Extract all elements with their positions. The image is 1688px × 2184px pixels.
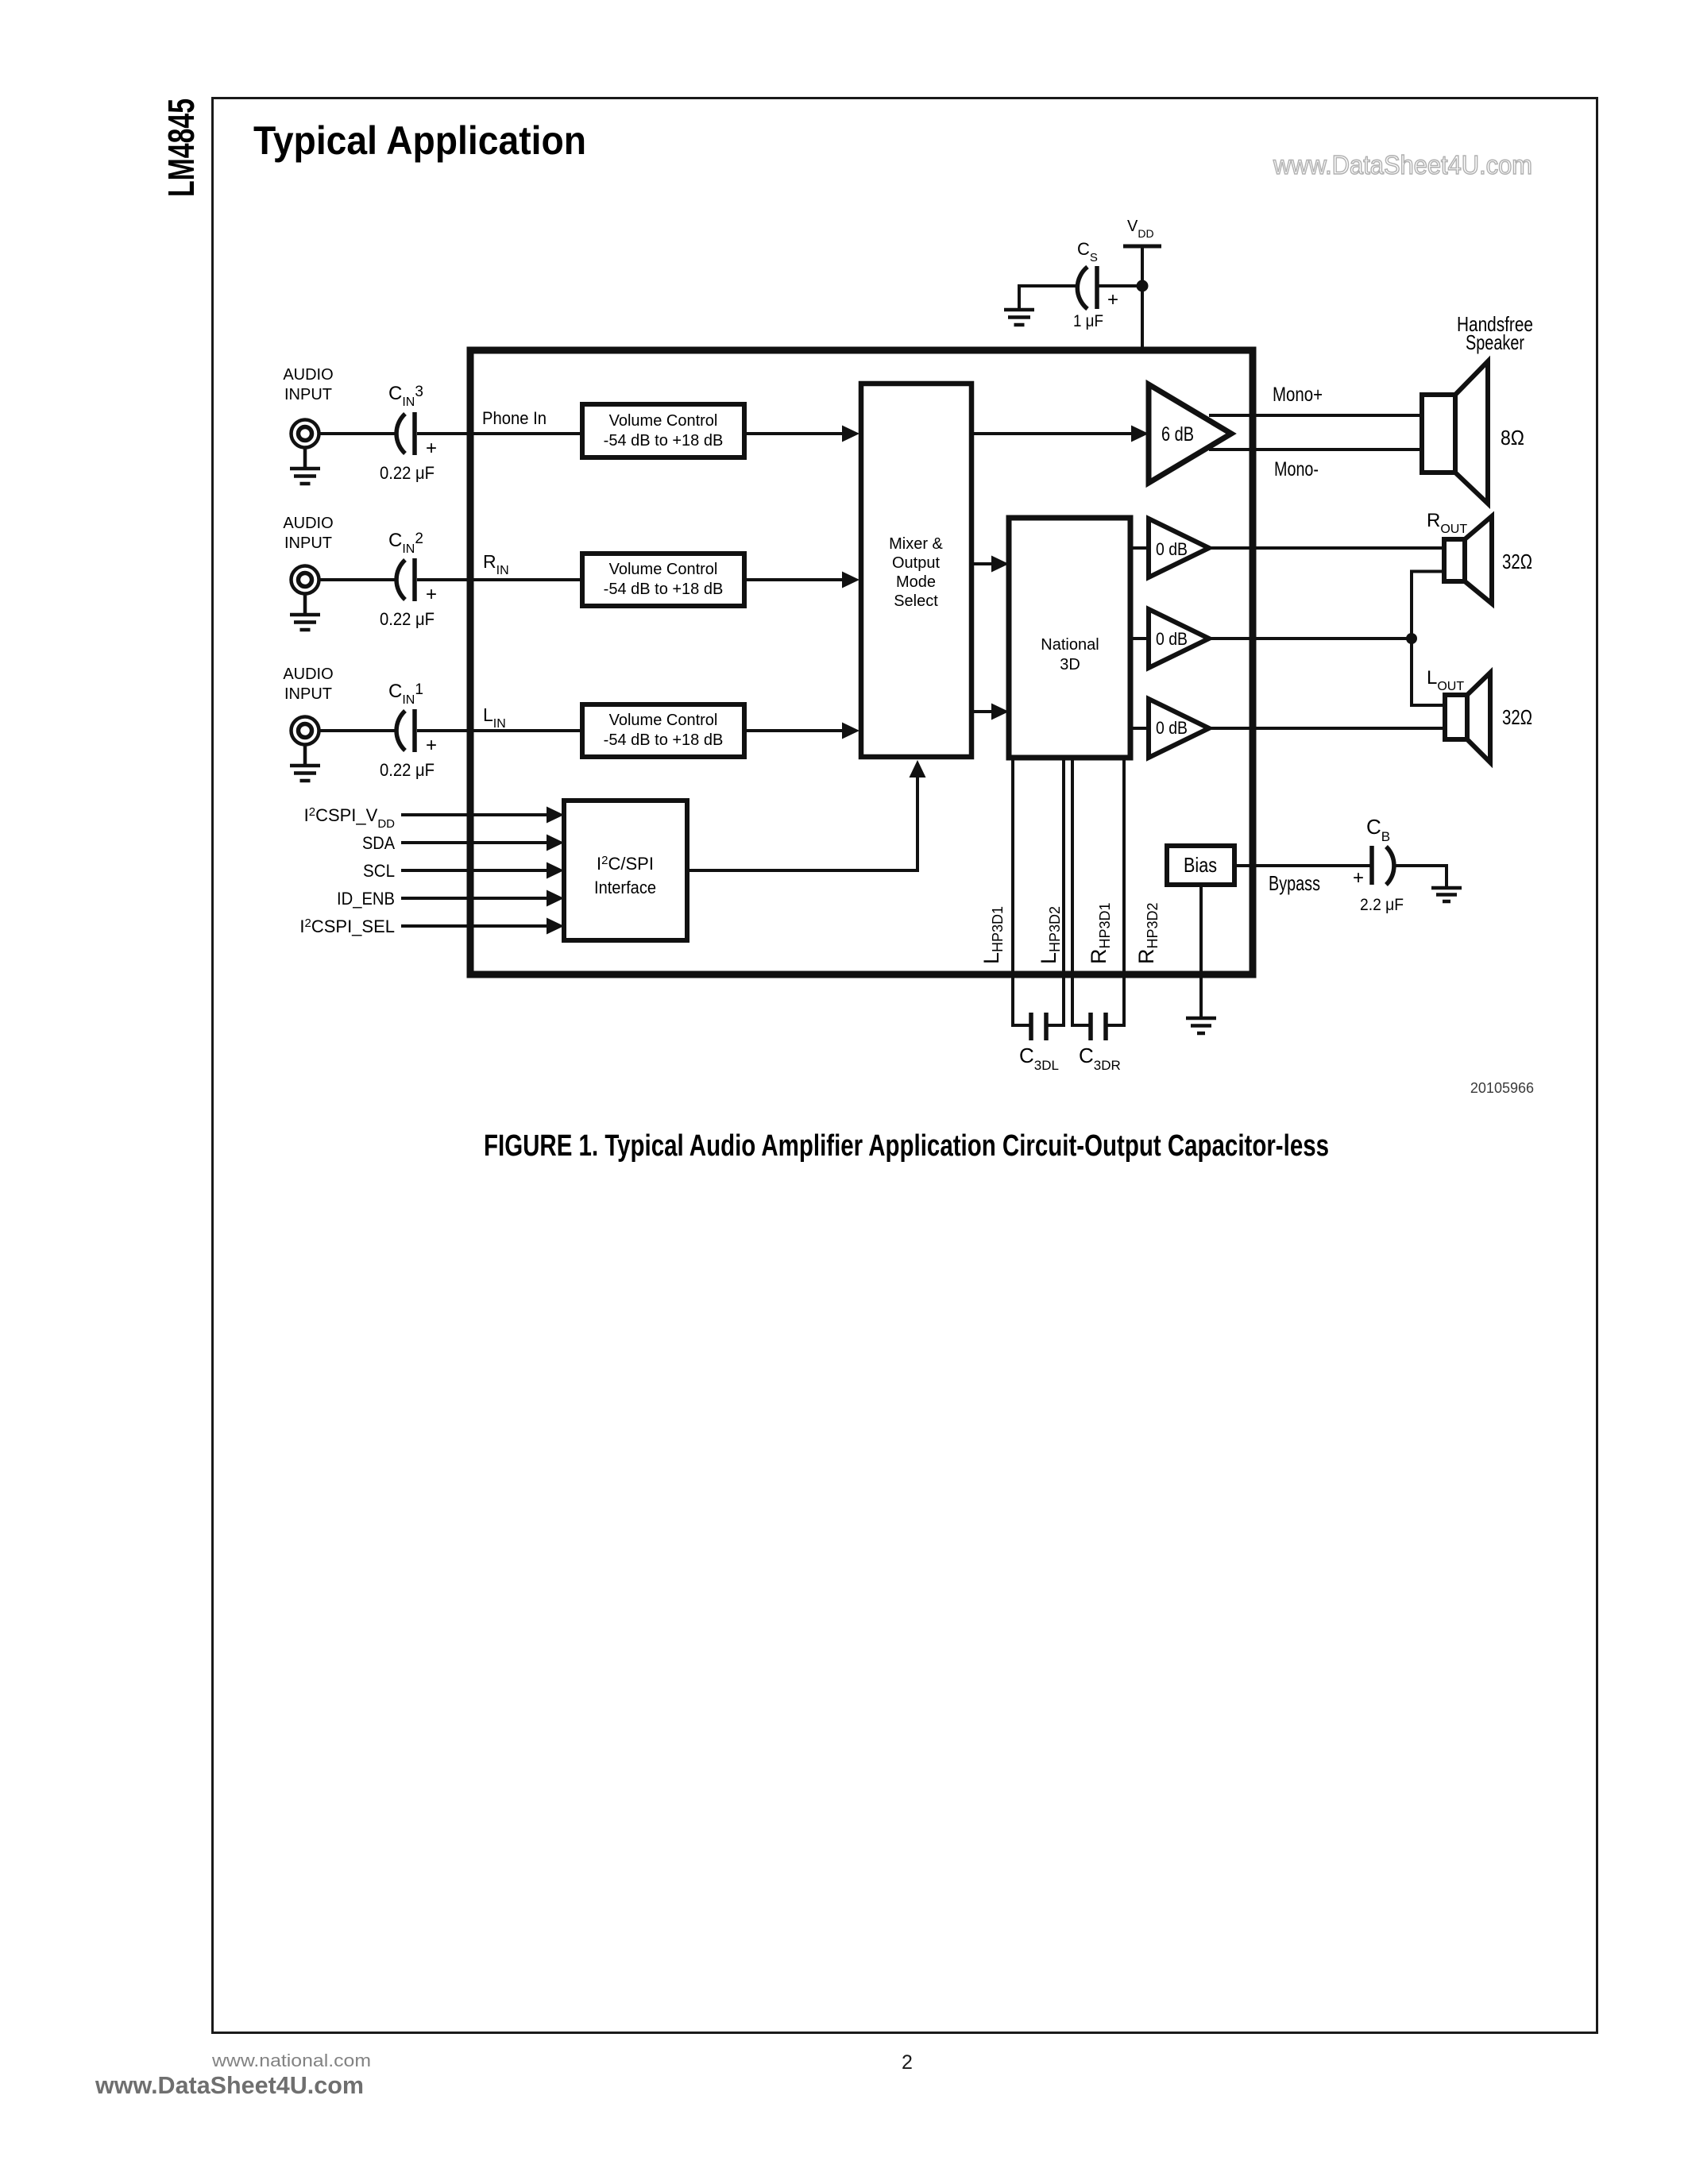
ground connector 2 [290, 594, 320, 630]
svg-text:0 dB: 0 dB [1156, 539, 1188, 559]
svg-text:+: + [426, 438, 437, 459]
wire national to 0dB amp 1 [1130, 546, 1149, 550]
svg-text:AUDIO: AUDIO [283, 666, 333, 683]
label CIN3 [388, 383, 423, 409]
svg-text:0.22 μF: 0.22 μF [380, 609, 435, 629]
svg-text:ROUT: ROUT [1427, 510, 1467, 536]
net SDA [362, 833, 395, 853]
svg-text:+: + [426, 584, 437, 605]
volume control 1 [582, 404, 744, 457]
volume control 3 [582, 704, 744, 757]
net ID_ENB [337, 889, 395, 909]
ground CB [1431, 888, 1462, 901]
net Phone In [482, 408, 547, 428]
svg-text:Select: Select [894, 592, 938, 610]
wire CS to ground [1019, 286, 1078, 309]
value 32 ohm right [1502, 550, 1532, 573]
svg-text:LHP3D1: LHP3D1 [979, 906, 1006, 964]
speaker Lout [1445, 673, 1490, 762]
wire CIN2 to volume control 2 [417, 578, 582, 581]
mixer and output mode select block [861, 384, 971, 757]
svg-text:C3DR: C3DR [1079, 1044, 1121, 1073]
ground bias [1186, 1018, 1216, 1033]
svg-text:www.national.com: www.national.com [211, 2051, 371, 2070]
label Rout [1427, 510, 1467, 536]
net I2CSPI_SEL [299, 916, 395, 936]
op-amp 0dB right [1149, 519, 1209, 577]
wire Mono- [1209, 448, 1423, 451]
svg-text:0 dB: 0 dB [1156, 718, 1188, 738]
svg-text:2: 2 [902, 2051, 913, 2074]
label CIN2 [388, 530, 423, 556]
label audio input 1 [283, 666, 333, 703]
wire connector1 to CIN1 [319, 729, 395, 732]
svg-text:Output: Output [892, 554, 940, 572]
svg-text:C3DL: C3DL [1019, 1044, 1059, 1073]
svg-text:I2C/SPI: I2C/SPI [597, 854, 654, 874]
label CB [1366, 815, 1390, 844]
wire mixer to national 3d lower [971, 704, 1009, 720]
svg-text:6 dB: 6 dB [1161, 423, 1194, 446]
svg-text:1 μF: 1 μF [1073, 312, 1103, 330]
svg-text:www.DataSheet4U.com: www.DataSheet4U.com [1273, 150, 1532, 179]
svg-text:I2CSPI_VDD: I2CSPI_VDD [304, 805, 396, 831]
wire 0dB amp1 to Rout speaker [1209, 546, 1444, 550]
net LIN [483, 704, 506, 731]
svg-text:Mode: Mode [896, 573, 936, 591]
svg-text:INPUT: INPUT [284, 534, 332, 552]
wire 0dB amp3 to Lout speaker [1209, 727, 1445, 730]
capacitor CIN2 [396, 558, 437, 605]
svg-text:Phone In: Phone In [482, 408, 547, 428]
wire RHP3D1 [1072, 758, 1089, 1025]
net RIN [483, 551, 509, 577]
net SCL [363, 861, 395, 881]
svg-text:Mono-: Mono- [1274, 458, 1319, 480]
svg-text:Typical Application: Typical Application [253, 118, 586, 163]
wire Mono+ [1209, 414, 1423, 417]
net Mono+ [1273, 384, 1323, 406]
wire national to 0dB amp 3 [1130, 727, 1149, 730]
svg-text:INPUT: INPUT [284, 685, 332, 703]
wire bias to CB bypass [1234, 864, 1372, 867]
label CIN1 [388, 681, 423, 707]
svg-text:Speaker: Speaker [1466, 330, 1524, 354]
ground CS [1004, 310, 1034, 325]
net Mono- [1274, 458, 1319, 480]
svg-text:AUDIO: AUDIO [283, 366, 333, 384]
value CIN3 0.22uF [380, 463, 435, 483]
wire LHP3D1 [1013, 758, 1029, 1025]
svg-text:Interface: Interface [594, 878, 656, 897]
wire national to 0dB amp 2 [1130, 637, 1149, 640]
ground connector 1 [290, 745, 320, 781]
svg-text:CS: CS [1077, 239, 1098, 264]
handsfree speaker [1422, 361, 1488, 504]
wire LHP3D2 [1048, 758, 1064, 1025]
wire connector2 to CIN2 [319, 578, 395, 581]
wire VDD rail to IC top [1141, 246, 1144, 350]
wire CS to VDD junction [1097, 284, 1142, 287]
label Lout [1427, 667, 1464, 693]
svg-text:SDA: SDA [362, 833, 395, 853]
connector audio input 1 [292, 717, 319, 745]
svg-text:LM4845: LM4845 [160, 98, 202, 197]
label RHP3D1 [1087, 902, 1113, 964]
connector audio input 2 [292, 566, 319, 594]
svg-text:+: + [1353, 867, 1364, 889]
label LHP3D2 [1037, 906, 1063, 964]
national 3d block [1009, 518, 1130, 758]
value 8 ohm [1501, 426, 1524, 450]
capacitor CS [1077, 266, 1118, 311]
I2C SPI interface block [564, 801, 687, 940]
speaker Rout [1444, 516, 1492, 604]
ground connector 3 [290, 448, 320, 484]
svg-text:0.22 μF: 0.22 μF [380, 463, 435, 483]
wire RHP3D2 [1107, 758, 1124, 1025]
svg-text:20105966: 20105966 [1470, 1080, 1534, 1096]
wire mixer to 6dB amp [971, 426, 1149, 442]
capacitor CIN1 [396, 709, 437, 756]
label C3DR [1079, 1044, 1121, 1073]
wire SCL to interface [401, 862, 564, 879]
svg-text:INPUT: INPUT [284, 386, 332, 403]
volume control 2 [582, 554, 744, 606]
svg-text:Mono+: Mono+ [1273, 384, 1323, 406]
svg-text:Volume Control: Volume Control [609, 712, 718, 729]
IC LM4845 block outline [470, 350, 1253, 974]
op-amp 0dB middle [1149, 609, 1209, 668]
wire bias to ground [1199, 885, 1203, 1017]
capacitor C3DR [1091, 1013, 1106, 1040]
wire mixer to national 3d upper [971, 556, 1009, 573]
wire CIN3 to volume control 1 [417, 432, 582, 435]
svg-text:LHP3D2: LHP3D2 [1037, 906, 1063, 964]
wire 0dB amp2 to junction [1209, 637, 1412, 640]
capacitor C3DL [1031, 1013, 1046, 1040]
svg-text:LIN: LIN [483, 704, 506, 731]
svg-text:CIN1: CIN1 [388, 681, 423, 707]
junction node headphone common [1406, 633, 1417, 644]
svg-text:FIGURE 1. Typical Audio Amplif: FIGURE 1. Typical Audio Amplifier Applic… [484, 1129, 1329, 1163]
svg-text:0.22 μF: 0.22 μF [380, 760, 435, 780]
label LHP3D1 [979, 906, 1006, 964]
svg-text:SCL: SCL [363, 861, 395, 881]
net I2CSPI_VDD [304, 805, 396, 831]
svg-text:AUDIO: AUDIO [283, 515, 333, 532]
wire connector3 to CIN3 [319, 432, 395, 435]
svg-text:CIN2: CIN2 [388, 530, 423, 556]
svg-text:Volume Control: Volume Control [609, 561, 718, 578]
wire volume control 3 to mixer [744, 723, 859, 739]
value CIN1 0.22uF [380, 760, 435, 780]
svg-text:CB: CB [1366, 815, 1390, 844]
wire I2CSPI_SEL to interface [401, 918, 564, 935]
label audio input 2 [283, 515, 333, 552]
svg-text:-54 dB to +18 dB: -54 dB to +18 dB [604, 432, 724, 450]
value 32 ohm left [1502, 705, 1532, 729]
junction VDD / CS [1137, 280, 1149, 292]
svg-text:2.2 μF: 2.2 μF [1360, 896, 1404, 914]
wire Rout lower terminal to junction [1412, 572, 1444, 641]
svg-text:32Ω: 32Ω [1502, 550, 1532, 573]
label CS [1077, 239, 1098, 264]
svg-text:VDD: VDD [1127, 218, 1154, 240]
op-amp 6dB mono amplifier [1149, 384, 1231, 483]
node VDD [1123, 218, 1161, 246]
svg-text:+: + [1107, 289, 1118, 311]
wire ID_ENB to interface [401, 890, 564, 907]
svg-text:0 dB: 0 dB [1156, 629, 1188, 649]
value CB 2.2uF [1360, 896, 1404, 914]
label handsfree speaker [1457, 312, 1533, 354]
op-amp 0dB bottom [1149, 699, 1209, 758]
svg-text:-54 dB to +18 dB: -54 dB to +18 dB [604, 581, 724, 598]
svg-text:RHP3D2: RHP3D2 [1134, 902, 1161, 964]
value CS 1uF [1073, 312, 1103, 330]
capacitor CB [1353, 846, 1394, 889]
bias block [1167, 846, 1234, 885]
svg-text:CIN3: CIN3 [388, 383, 423, 409]
svg-text:Mixer &: Mixer & [889, 535, 943, 553]
value CIN2 0.22uF [380, 609, 435, 629]
svg-text:National: National [1041, 636, 1099, 654]
wire volume control 2 to mixer [744, 572, 859, 588]
wire SDA to interface [401, 835, 564, 851]
wire volume control 1 to mixer [744, 426, 859, 442]
label RHP3D2 [1134, 902, 1161, 964]
svg-text:www.DataSheet4U.com: www.DataSheet4U.com [95, 2071, 364, 2099]
svg-text:I2CSPI_SEL: I2CSPI_SEL [299, 916, 395, 936]
capacitor CIN3 [396, 412, 437, 459]
svg-text:RHP3D1: RHP3D1 [1087, 902, 1113, 964]
svg-text:LOUT: LOUT [1427, 667, 1464, 693]
svg-text:-54 dB to +18 dB: -54 dB to +18 dB [604, 731, 724, 749]
connector audio input 3 [292, 420, 319, 448]
svg-text:32Ω: 32Ω [1502, 705, 1532, 729]
wire CB to ground [1396, 866, 1447, 887]
wire interface to mixer select input [687, 760, 926, 870]
svg-text:Bypass: Bypass [1269, 871, 1320, 895]
label audio input 3 [283, 366, 333, 403]
net Bypass [1269, 871, 1320, 895]
wire I2CSPI_VDD to interface [401, 807, 564, 824]
svg-text:3D: 3D [1060, 656, 1080, 673]
wire junction to Lout upper terminal [1412, 639, 1445, 705]
label C3DL [1019, 1044, 1059, 1073]
svg-text:RIN: RIN [483, 551, 509, 577]
svg-text:ID_ENB: ID_ENB [337, 889, 395, 909]
svg-text:Volume Control: Volume Control [609, 412, 718, 430]
svg-text:Bias: Bias [1184, 853, 1217, 877]
svg-text:8Ω: 8Ω [1501, 426, 1524, 450]
svg-text:+: + [426, 735, 437, 756]
wire CIN1 to volume control 3 [417, 729, 582, 732]
